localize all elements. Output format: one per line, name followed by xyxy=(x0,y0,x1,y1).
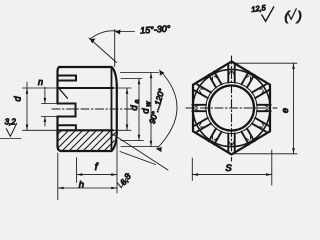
left face lower segment xyxy=(56,117,58,147)
thread circle xyxy=(206,82,257,133)
leader xyxy=(119,31,135,33)
d extension lines xyxy=(23,87,58,89)
svg-text:f: f xyxy=(95,162,99,173)
bore circle xyxy=(209,86,254,131)
svg-text:d: d xyxy=(13,96,23,102)
svg-text:S: S xyxy=(225,163,232,174)
bottom-left corner xyxy=(58,147,62,152)
slots every 30 degrees xyxy=(192,64,270,152)
short lower diagonal xyxy=(120,152,156,165)
d dimension line xyxy=(26,82,28,130)
chamfer circle xyxy=(193,69,270,146)
hole lower line xyxy=(58,129,114,131)
hexagon xyxy=(193,62,270,155)
vertical centerline xyxy=(231,56,233,161)
axis centerline xyxy=(52,108,133,110)
svg-text:d: d xyxy=(129,105,140,111)
svg-text:6,3: 6,3 xyxy=(118,171,133,187)
svg-text:12,5: 12,5 xyxy=(251,3,268,14)
lower slot projection xyxy=(58,125,76,130)
hole upper line xyxy=(58,87,114,89)
svg-text:3,2: 3,2 xyxy=(5,118,17,127)
angle arc xyxy=(157,70,178,149)
svg-text:e: e xyxy=(280,108,290,113)
svg-text:a: a xyxy=(134,99,141,103)
countersink cone line xyxy=(60,89,68,98)
vertical extension xyxy=(114,30,116,67)
lower leg xyxy=(113,134,169,170)
bottom-right chamfer xyxy=(112,133,117,152)
top-right chamfer xyxy=(112,67,117,86)
svg-text:15°-30°: 15°-30° xyxy=(140,23,171,35)
svg-text:): ) xyxy=(296,9,302,24)
svg-text:h: h xyxy=(79,180,84,191)
nut bottom edge xyxy=(61,150,112,152)
top-left bevel xyxy=(58,67,60,72)
svg-text:n: n xyxy=(38,77,43,87)
right (bearing) face xyxy=(116,86,118,133)
hex flat boundary line xyxy=(111,68,113,150)
angle leg xyxy=(89,38,117,63)
left face upper segment xyxy=(56,72,58,104)
section hatching xyxy=(40,127,135,152)
angle arc xyxy=(90,31,119,39)
slot B (front slot on axis) xyxy=(58,104,76,117)
horizontal centerline xyxy=(186,107,277,109)
nut top edge xyxy=(59,66,112,68)
slot A (upper slot projection) xyxy=(58,76,77,81)
